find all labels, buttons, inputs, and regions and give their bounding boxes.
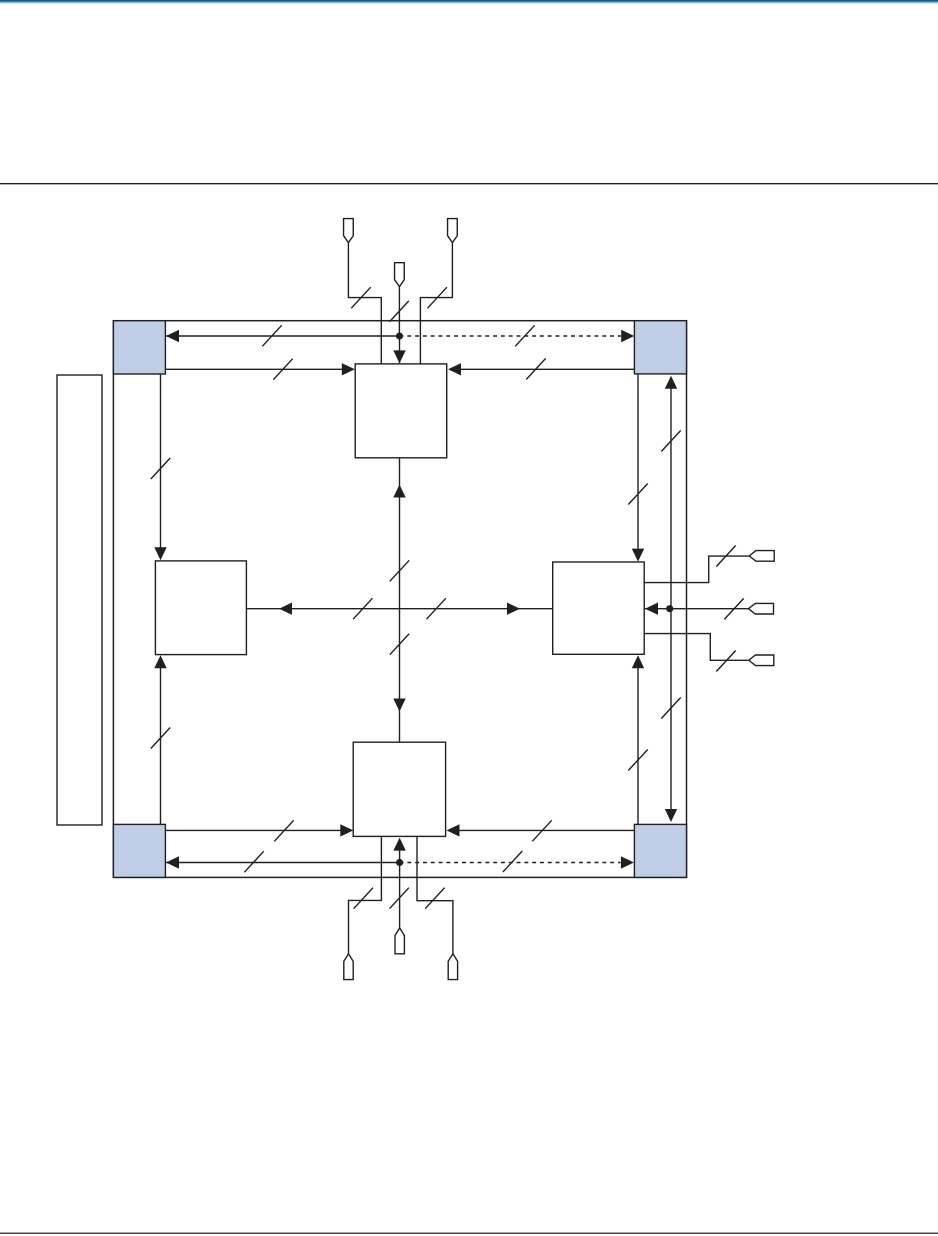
wire bottom-right node to south box (447, 824, 635, 836)
wire top-right node down to east box (632, 374, 644, 562)
arrow right on center bus (507, 603, 520, 615)
bus slash on P4 wire (716, 546, 735, 567)
wire east box to pin P5 (645, 603, 749, 615)
wire pin P1 to north box (348, 243, 381, 364)
bidirectional ring bus right (665, 376, 677, 822)
bus slash north-east dashed (515, 325, 534, 346)
bus slash on P9 wire (425, 888, 444, 909)
wire south box to pin P9 (417, 836, 453, 953)
footer rule (0, 1233, 938, 1234)
corner node box top-left (113, 321, 165, 374)
wire bottom-left node to south box (165, 824, 353, 836)
bus slash on P2 wire (389, 301, 408, 322)
port box east (553, 562, 645, 654)
pin P8 (bottom middle) (395, 928, 404, 954)
bus slash left lower (151, 728, 170, 749)
port box south (353, 742, 445, 836)
pin P1 (top left) (344, 219, 354, 243)
corner node box bottom-left (113, 824, 165, 877)
arrow left on center bus (279, 603, 292, 615)
bus slash north-west (262, 325, 281, 346)
bus slash right lower (628, 750, 647, 771)
wire bottom-left node up to west box (154, 655, 166, 824)
bus slash on east outbound wire (532, 820, 551, 841)
bus slash on P3 wire (428, 287, 447, 308)
header rule (0, 183, 938, 184)
north dashed bus to top-right node (400, 330, 635, 342)
pin P6 (right lower) (749, 655, 774, 666)
horizontal center bus (246, 608, 552, 610)
bus slash on P6 wire (716, 651, 735, 672)
pin P5 (right middle) (749, 603, 774, 614)
tall side block (57, 375, 102, 825)
bus slash on east inbound wire (526, 358, 545, 379)
north bus arrow to top-left node (166, 330, 400, 342)
wire east box to pin P6 (644, 634, 749, 661)
south dashed bus to bottom-right node (400, 856, 634, 868)
port box north (355, 364, 447, 458)
wire pin P2 to junction (398, 287, 400, 336)
arrow up on center bus (393, 485, 405, 498)
bus slash on P7 wire (354, 888, 373, 909)
wire junction to pin P8 (399, 863, 401, 929)
bus slash on P8 wire (390, 888, 409, 909)
junction dot top (396, 332, 403, 339)
junction dot bottom (396, 859, 403, 866)
wire east box to pin P4 (644, 556, 749, 583)
arrow down on center bus (393, 699, 405, 712)
bus slash center-horizontal left (353, 598, 372, 619)
outer switch-fabric frame (113, 321, 686, 878)
corner node box bottom-right (634, 824, 686, 877)
pin P3 (top right) (448, 219, 458, 243)
arrow into north box top (393, 336, 405, 363)
header bar (0, 0, 938, 4)
bus slash on P1 wire (351, 287, 370, 308)
bus slash on west outbound wire (274, 820, 293, 841)
wire bottom-right node up to east box (632, 655, 644, 824)
bus slash center-horizontal right (427, 598, 446, 619)
bus slash on P5 wire (724, 598, 743, 619)
pin P9 (bottom right) (448, 954, 457, 980)
pin P7 (bottom left) (344, 954, 353, 980)
wire south box to pin P7 (349, 836, 382, 953)
corner node box top-right (634, 321, 686, 374)
wire top-left node down to west box (154, 374, 166, 560)
wire top-right node to north box (448, 363, 634, 375)
bus slash center-vertical upper (390, 560, 409, 581)
bus slash center-vertical lower (390, 634, 409, 655)
pin P4 (right upper) (749, 551, 774, 562)
arrow into south box bottom (393, 838, 405, 863)
junction dot right (666, 605, 673, 612)
bus slash ring lower (661, 698, 680, 719)
pin P2 (top middle) (395, 263, 405, 287)
bus slash south-west (244, 851, 263, 872)
wire pin P3 to north box (420, 243, 452, 364)
bus slash left upper (151, 458, 170, 479)
south bus arrow to bottom-left node (166, 856, 400, 868)
vertical center bus (399, 458, 401, 742)
wire top-left node to north box (165, 363, 354, 375)
port box west (155, 561, 246, 655)
bus slash on west inbound wire (273, 359, 292, 380)
bus slash south-east dashed (503, 851, 522, 872)
bus slash ring upper (661, 431, 680, 452)
bus slash right upper (628, 484, 647, 505)
